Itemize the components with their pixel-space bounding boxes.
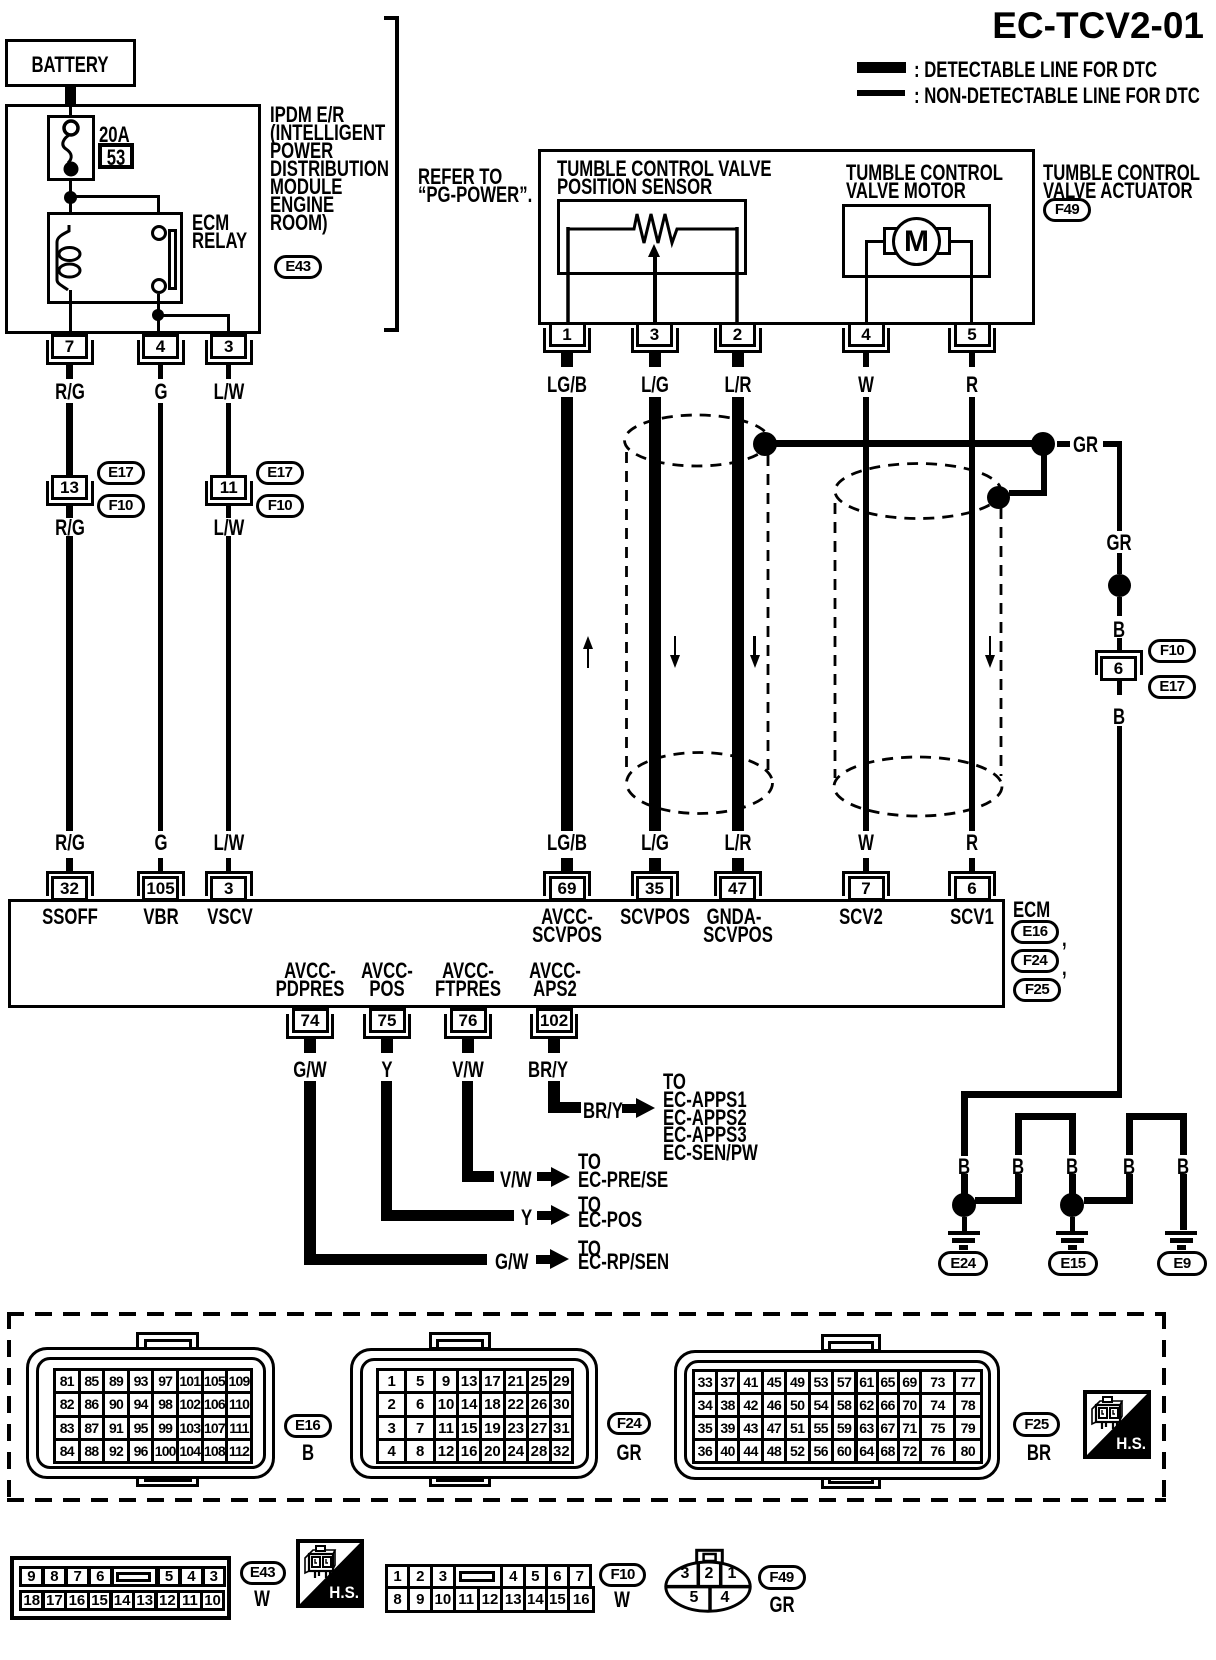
connector label E16 oval big	[284, 1414, 332, 1438]
connector E43 pin cells row1	[19, 1566, 44, 1587]
shield junction dot right	[1031, 432, 1055, 456]
inline connector 13	[51, 475, 88, 500]
relay switch bottom contact circle	[151, 278, 167, 294]
connector F24 shell outer	[350, 1348, 598, 1479]
ECM pin 76	[450, 1008, 487, 1033]
B vertical segment d	[1117, 638, 1122, 651]
wire label L/R top	[724, 374, 751, 396]
wire label LG/B bottom	[547, 832, 587, 854]
tumble control valve actuator box	[538, 149, 1035, 325]
relay movable contact bar	[168, 229, 177, 290]
ECM pin label AVCC-FTPRES line2	[435, 978, 501, 1000]
wire label BR/Y branch	[583, 1100, 623, 1122]
wire down to relay switch	[157, 195, 160, 228]
inline connector 11	[210, 475, 247, 500]
junction dot below relay	[152, 309, 164, 321]
fuse element symbol	[47, 115, 95, 181]
wire V/W vertical	[462, 1081, 473, 1182]
connector E16 top tab inner	[144, 1339, 192, 1350]
GR vertical segment b	[1117, 553, 1122, 574]
actuator pin 2	[719, 322, 756, 347]
GR vertical segment a	[1117, 441, 1122, 531]
wire junction to relay switch horizontal	[70, 195, 159, 198]
ECM pin 102	[536, 1008, 573, 1033]
connector label F25 oval big	[1013, 1412, 1060, 1437]
comma after E16	[1062, 928, 1067, 950]
ECM pin label AVCC-PDPRES line2	[276, 978, 345, 1000]
wire label L/G top	[641, 374, 669, 396]
motor brush rect	[883, 227, 951, 255]
wire label B g2	[1012, 1156, 1024, 1178]
connector E16 pin grid	[53, 1368, 81, 1394]
connector F25 color BR	[1027, 1442, 1051, 1464]
dashed border box	[7, 1312, 1166, 1502]
B vertical segment c	[1117, 597, 1122, 616]
wire label R/G top	[55, 381, 85, 403]
connector label F25 oval ecm	[1013, 978, 1061, 1002]
connector E16 shell outer	[26, 1347, 275, 1479]
connector F10 outer box	[385, 1564, 593, 1613]
fuse number 53 text	[107, 147, 126, 169]
ground wire 5 vertical	[1180, 1120, 1187, 1155]
actuator title line2	[1043, 180, 1193, 202]
fuse rating 20A	[99, 124, 130, 146]
wire LG/B	[561, 397, 573, 831]
actuator pin 3	[636, 322, 673, 347]
connector F25 top tab	[821, 1334, 881, 1352]
flow arrow L/R down	[753, 636, 756, 662]
connector F25 bottom tab	[821, 1470, 881, 1489]
battery box	[5, 39, 136, 87]
wire fuse to junction	[69, 181, 72, 197]
ECM pin 47	[732, 858, 744, 872]
wire label BR/Y top	[528, 1059, 568, 1081]
wire Y vertical	[381, 1081, 392, 1220]
motor circle M	[892, 217, 941, 266]
IPDM text line4	[270, 158, 389, 180]
connector E43 pin cells row2	[19, 1590, 44, 1612]
TO EC-PRE/SE line2	[578, 1169, 668, 1191]
wire label W top	[858, 374, 874, 396]
wire BR/Y vertical	[548, 1081, 560, 1113]
wire L/W lower	[226, 536, 231, 831]
connector F49 color GR	[769, 1594, 794, 1616]
IPDM pin 4	[142, 334, 179, 359]
wire label L/R bottom	[724, 832, 751, 854]
motor left lead vertical	[865, 240, 869, 323]
actuator title line1	[1043, 162, 1200, 184]
wire relay coil to pin 7	[69, 290, 72, 336]
F49 pin 1	[728, 1566, 737, 1582]
motor left lead horizontal	[865, 240, 884, 244]
wire L/W upper	[226, 403, 231, 475]
TO EC-PRE/SE line1	[578, 1151, 601, 1173]
shield2 tap horizontal	[1009, 490, 1047, 496]
valve motor outer box	[842, 204, 991, 278]
reference bracket	[395, 16, 399, 332]
wire L/G	[649, 397, 661, 831]
TO EC-APPS text line2	[663, 1089, 747, 1111]
connector label F24 oval ecm	[1011, 949, 1059, 973]
wire G/W vertical	[304, 1081, 316, 1265]
position sensor title line2	[557, 176, 712, 198]
ground wire 5 long	[1180, 1174, 1187, 1230]
arrow to EC-PRE/SE	[537, 1172, 553, 1181]
ground symbol E24	[948, 1231, 980, 1236]
connector F10 pin cells row1	[385, 1564, 411, 1589]
ECM pin 3	[226, 858, 231, 872]
shield 2 tap dot	[987, 486, 1010, 509]
connector F24 bottom tab	[429, 1468, 491, 1487]
wire label L/G bottom	[641, 832, 669, 854]
connector F24 color GR	[616, 1442, 641, 1464]
wire label B below connector 6	[1112, 706, 1124, 728]
wire label G/W top	[293, 1059, 326, 1081]
F49 pin 5	[690, 1590, 699, 1606]
wire label G/W branch	[495, 1251, 528, 1273]
wire label LG/B top	[547, 374, 587, 396]
refer to text line2	[418, 184, 532, 206]
IPDM pin 3	[210, 334, 247, 359]
valve motor title line1	[846, 162, 1003, 184]
IPDM E/R box	[5, 104, 261, 334]
connector E16 color B	[302, 1442, 314, 1464]
connector E16 shell inner	[36, 1357, 266, 1469]
ground wire 3 vertical	[1069, 1120, 1076, 1155]
ground label E9 oval	[1157, 1251, 1207, 1276]
wire label B g4	[1123, 1156, 1135, 1178]
inline connector 6	[1095, 650, 1143, 675]
ground label E24 oval	[938, 1251, 988, 1276]
position sensor title line1	[557, 158, 772, 180]
wire BR/Y horizontal	[548, 1102, 581, 1113]
arrow to EC-RP/SEN	[536, 1255, 552, 1264]
ECM pin 69	[561, 858, 573, 872]
actuator pin 1	[549, 322, 586, 347]
connector label E16 oval ecm	[1011, 920, 1059, 944]
wire label Y top	[381, 1059, 392, 1081]
IPDM text line5	[270, 176, 342, 198]
ECM pin label GNDA-SCVPOS line1	[707, 906, 762, 928]
connector E43 outer box	[10, 1556, 231, 1620]
B vertical long wire	[1117, 726, 1122, 1091]
wire down to pin 3	[227, 314, 230, 337]
connector F49 ellipse shell	[660, 1545, 760, 1617]
legend detectable text	[914, 59, 1157, 81]
ECM relay box	[47, 212, 183, 304]
connector E16 bottom tab inner	[144, 1471, 192, 1482]
ground wire 4 vertical	[1126, 1120, 1133, 1155]
position sensor box	[557, 199, 747, 275]
wire label L/W bottom	[213, 832, 244, 854]
title EC-TCV2-01	[992, 7, 1204, 44]
wire junction to pin 3 horizontal	[158, 314, 229, 317]
arrow to EC-POS	[537, 1211, 553, 1220]
ECM pin label SSOFF	[42, 906, 98, 928]
ground symbol E15	[1056, 1231, 1088, 1236]
connector F24 bottom tab inner	[436, 1471, 484, 1482]
legend non-detectable text	[914, 85, 1200, 107]
wire R	[969, 397, 975, 831]
GR dash after junction	[1057, 441, 1070, 447]
IPDM text line7	[270, 212, 328, 234]
connector E43 color W	[254, 1588, 270, 1610]
ECM pin 6	[969, 858, 975, 872]
motor right lead horizontal	[951, 240, 972, 244]
connector F24 shell inner	[360, 1358, 589, 1469]
relay label ECM	[192, 212, 229, 234]
ECM pin 105	[158, 858, 163, 872]
TO EC-POS line2	[578, 1209, 642, 1231]
TO EC-APPS text line1	[663, 1071, 686, 1093]
connector label F10 oval left	[97, 494, 145, 518]
TO EC-POS line1	[578, 1194, 601, 1216]
wire G	[158, 403, 163, 831]
wire label B g1	[958, 1156, 970, 1178]
IPDM text line2	[270, 122, 385, 144]
wire label G bottom	[154, 832, 167, 854]
connector label F10 oval right	[1148, 639, 1196, 663]
ECM pin label AVCC-SCVPOS line2	[532, 924, 602, 946]
connector F25 pin grid	[692, 1369, 718, 1395]
ECM pin label VSCV	[207, 906, 253, 928]
IPDM pin 7	[51, 334, 88, 359]
connector F25 top tab inner	[828, 1341, 874, 1352]
ECM pin label AVCC-PDPRES line1	[284, 960, 336, 982]
ECM pin 74	[292, 1008, 329, 1033]
ECM pin label AVCC-POS line1	[361, 960, 413, 982]
connector F24 top tab inner	[436, 1339, 484, 1350]
wire battery to fuse	[69, 107, 72, 116]
wire label R top	[966, 374, 978, 396]
wire label L/W mid	[213, 517, 244, 539]
wire V/W horizontal	[462, 1171, 494, 1182]
ground junction dot E24	[952, 1193, 976, 1217]
connector label F10 oval big	[599, 1563, 646, 1587]
ECM pin label AVCC-FTPRES line1	[442, 960, 494, 982]
IPDM text line3	[270, 140, 333, 162]
ECM pin label GNDA-SCVPOS line2	[703, 924, 773, 946]
TO EC-APPS text line5	[663, 1142, 758, 1164]
ground wire 1 stub	[961, 1174, 968, 1194]
connector F24 top tab	[429, 1332, 491, 1350]
potentiometer wiper arrow	[653, 256, 657, 336]
connector F24 pin grid	[376, 1368, 407, 1394]
B stub below connector 6	[1117, 681, 1122, 695]
wire junction to relay coil	[69, 197, 72, 228]
ECM pin label SCV1	[950, 906, 994, 928]
fuse 20A box	[47, 115, 95, 181]
connector label E17 oval mid	[256, 461, 304, 485]
F49 pin 2	[705, 1566, 714, 1582]
GR bus horizontal	[765, 440, 1043, 447]
ground label E15 oval	[1048, 1251, 1098, 1276]
wire label B g5	[1177, 1156, 1189, 1178]
stub below connector 13	[66, 506, 73, 518]
ground symbol E9	[1165, 1231, 1197, 1236]
H.S. icon bottom row	[296, 1539, 364, 1608]
wire label Y branch	[521, 1207, 532, 1229]
TO EC-RP/SEN line2	[578, 1251, 669, 1273]
wire label B above connector 6	[1112, 619, 1124, 641]
wire Y horizontal	[381, 1210, 514, 1221]
IPDM text line6	[270, 194, 334, 216]
legend non-detectable line bar	[857, 90, 905, 96]
battery stub	[65, 87, 76, 105]
shield junction dot left	[753, 432, 777, 456]
B corner horizontal	[961, 1091, 1122, 1098]
stub below connector 11	[226, 506, 231, 518]
connector F10 pin cells row2	[385, 1586, 411, 1613]
wire label GR vertical	[1106, 532, 1131, 554]
potentiometer resistor	[557, 199, 747, 339]
relay coil	[50, 220, 90, 295]
actuator pin 4	[848, 322, 885, 347]
motor right lead vertical	[970, 240, 974, 323]
wire label L/W top	[213, 381, 244, 403]
connector label F10 oval mid	[256, 494, 304, 518]
fuse number box 53	[98, 143, 134, 169]
ECM pin label AVCC-APS2 line2	[533, 978, 577, 1000]
TO EC-RP/SEN line1	[578, 1238, 601, 1260]
legend detectable line bar	[857, 62, 906, 73]
flow arrow R down	[989, 636, 992, 662]
wire label G top	[154, 381, 167, 403]
wire L/R	[732, 397, 744, 831]
connector F25 shell inner	[684, 1360, 991, 1470]
wire label V/W top	[452, 1059, 484, 1081]
ground wire 4 to dot2 horizontal	[1084, 1197, 1133, 1204]
shield cylinder around L/G and L/R wires	[600, 400, 1030, 830]
ECM pin 7	[863, 858, 869, 872]
ground stub E24	[962, 1217, 967, 1231]
wire W	[863, 397, 869, 831]
ECM pin label SCVPOS	[620, 906, 690, 928]
wire label V/W branch	[500, 1169, 532, 1191]
ECM pin label AVCC-APS2 line1	[529, 960, 581, 982]
ground stub E15	[1070, 1217, 1075, 1231]
ground bus 4-5 horizontal	[1126, 1113, 1188, 1120]
wire label B g3	[1066, 1156, 1078, 1178]
actuator pin 5	[954, 322, 991, 347]
wire G/W horizontal	[304, 1254, 487, 1265]
wire relay switch to junction	[157, 294, 160, 311]
connector label E17 oval right	[1148, 675, 1196, 699]
ECM label	[1013, 899, 1050, 921]
ECM pin label VBR	[143, 906, 178, 928]
flow arrow L/G down	[674, 636, 677, 662]
ECM pin label SCV2	[839, 906, 883, 928]
ground wire 2 vertical	[1015, 1120, 1022, 1155]
connector E16 top tab	[136, 1332, 199, 1350]
IPDM text line1	[270, 104, 344, 126]
connector E16 bottom tab	[136, 1468, 199, 1487]
junction dot GR to B	[1108, 574, 1131, 597]
relay label RELAY	[192, 230, 247, 252]
ECM pin label AVCC-POS line2	[369, 978, 404, 1000]
ground wire 2 to dot1 horizontal	[975, 1197, 1022, 1204]
GR wire to corner	[1103, 441, 1122, 447]
ground wire 2 lower vertical	[1015, 1174, 1022, 1204]
ground junction dot E15	[1060, 1193, 1084, 1217]
shield2 tap vertical	[1041, 453, 1047, 496]
relay switch top contact circle	[151, 225, 167, 241]
wire label R/G bottom	[55, 832, 85, 854]
connector F25 shell outer	[674, 1350, 1000, 1480]
wire label W bottom	[858, 832, 874, 854]
H.S. icon in dashed box	[1083, 1390, 1151, 1459]
wire label R bottom	[966, 832, 978, 854]
ground wire 3 stub	[1069, 1174, 1076, 1194]
wire R/G lower	[66, 536, 73, 831]
ECM pin 35	[649, 858, 661, 872]
F49 pin 4	[721, 1590, 730, 1606]
connector label F24 oval big	[607, 1412, 651, 1435]
F49 pin 3	[681, 1566, 690, 1582]
wire label R/G mid	[55, 517, 85, 539]
ground wire 1 vertical	[961, 1098, 968, 1156]
connector label E43 oval	[274, 255, 322, 279]
ECM box	[8, 899, 1005, 1008]
junction dot below fuse	[64, 191, 77, 204]
wire label GR right of bus	[1073, 434, 1098, 456]
connector label F49 oval big	[758, 1565, 806, 1590]
ECM pin label AVCC-SCVPOS line1	[541, 906, 593, 928]
TO EC-APPS text line4	[663, 1124, 747, 1146]
ground bus 2-3 horizontal	[1015, 1113, 1077, 1120]
connector label E43 oval big	[240, 1561, 286, 1585]
connector label F49 oval top	[1043, 198, 1091, 222]
comma after F24	[1062, 957, 1067, 979]
ECM pin 75	[369, 1008, 406, 1033]
connector F10 color W	[614, 1589, 630, 1611]
refer to text line1	[418, 166, 502, 188]
arrow to EC-APPS	[622, 1104, 638, 1113]
ECM pin 32	[66, 858, 73, 872]
TO EC-APPS text line3	[663, 1107, 747, 1129]
battery label	[31, 54, 108, 76]
ground wire 4 lower vertical	[1126, 1174, 1133, 1204]
wire junction to pin 4	[157, 319, 160, 336]
wire R/G upper	[66, 403, 73, 475]
valve motor title line2	[846, 180, 966, 202]
connector F25 bottom tab inner	[828, 1473, 874, 1484]
flow arrow LG/B up	[583, 636, 593, 649]
connector label E17 oval left	[97, 461, 145, 485]
